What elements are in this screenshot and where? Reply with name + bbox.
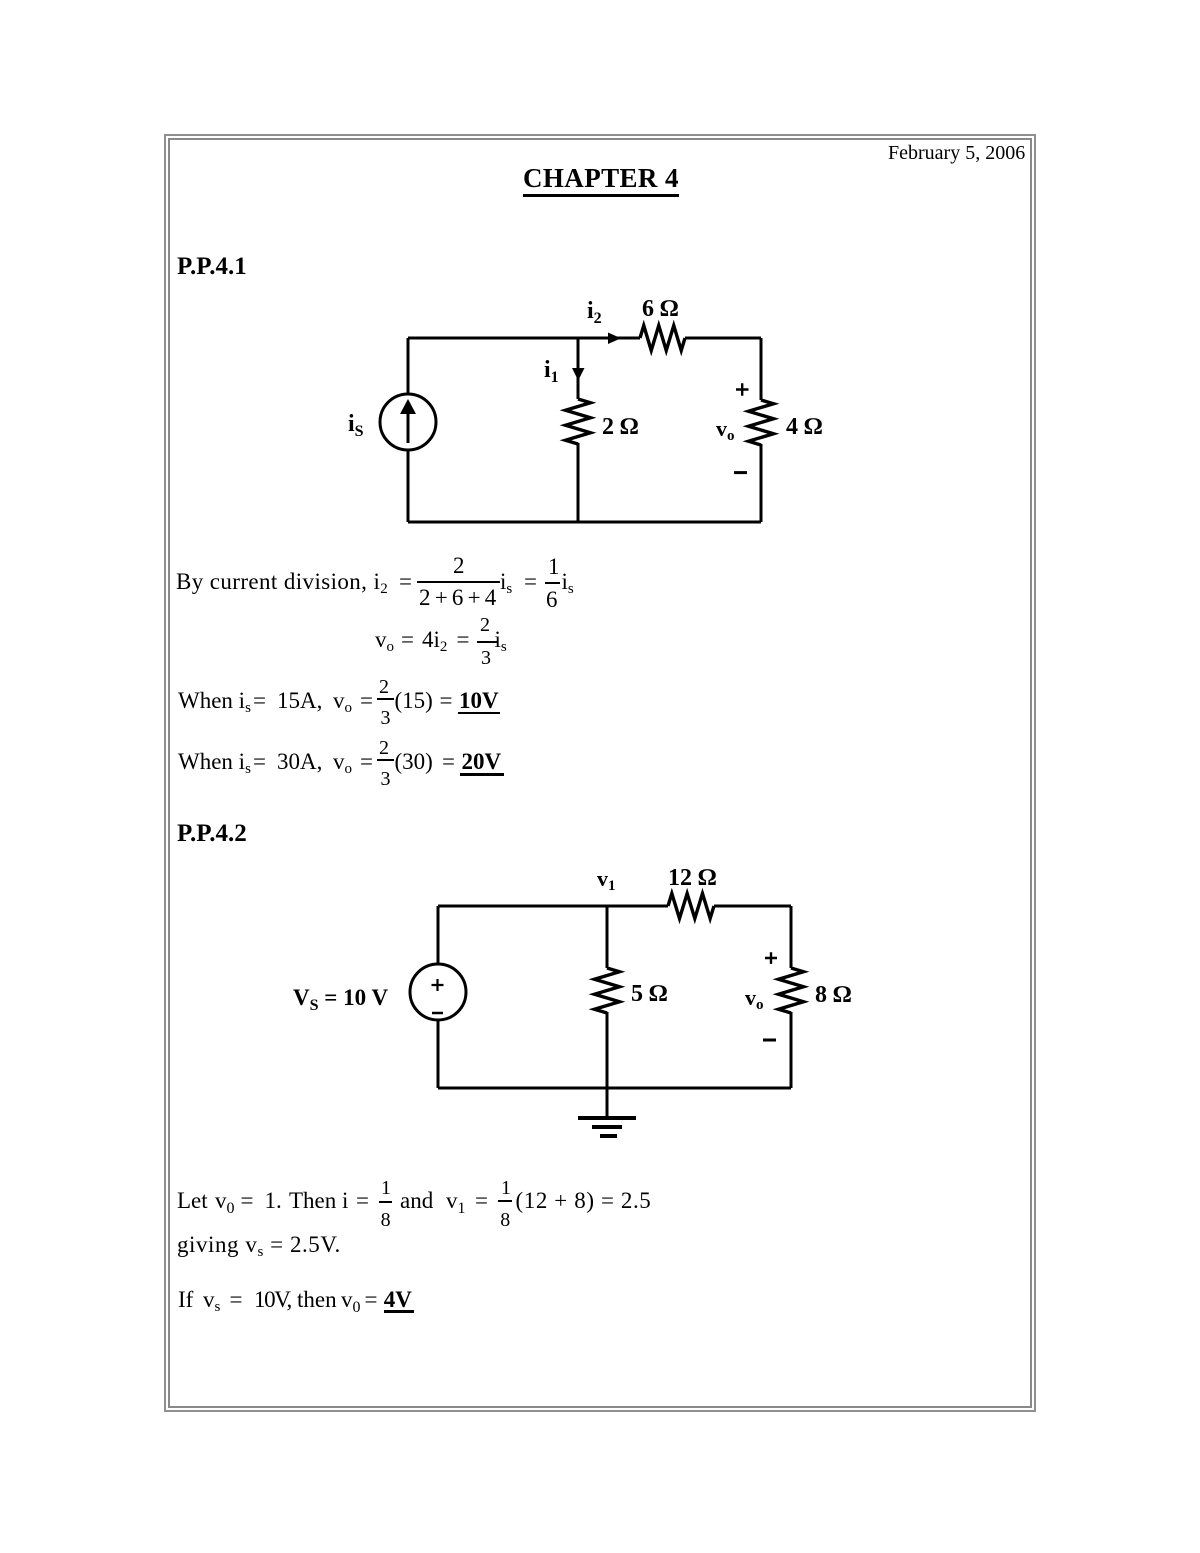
fraction 1 over 8 numerator [381, 1178, 391, 1198]
equation line 3: When is = 15A [178, 689, 251, 712]
wire right lower [790, 1012, 793, 1088]
fraction 2 over 2+6+4 numerator [453, 554, 465, 577]
wire middle upper [577, 338, 580, 399]
wire middle lower [577, 443, 580, 522]
minus sign vo1 [734, 471, 747, 474]
plus sign vo1 [736, 383, 749, 396]
page frame outer [164, 134, 1036, 1412]
ground bar 2 [592, 1125, 622, 1129]
fraction 1 over 8 numerator [501, 1178, 511, 1198]
source minus sign [432, 1012, 443, 1015]
wire top right segment [714, 905, 791, 908]
resistor R 2ohm [566, 399, 591, 444]
answer 4V underlined [384, 1288, 412, 1311]
wire top right segment [685, 337, 761, 340]
voltage source Vs circle [410, 964, 466, 1020]
wire middle upper [606, 906, 609, 968]
fraction bar [498, 1200, 511, 1202]
date [888, 143, 1025, 163]
fraction 2 over 3 numerator [379, 738, 389, 758]
wire left upper [437, 906, 440, 964]
answer 20V underlined [462, 750, 502, 773]
wire left lower [407, 450, 410, 522]
ground bar 1 [578, 1116, 636, 1120]
minus sign vo2 [763, 1039, 776, 1042]
fraction 2 over 3 numerator [379, 677, 389, 697]
ground bar 3 [600, 1134, 617, 1138]
resistor R 5ohm [595, 968, 620, 1013]
resistor R 4ohm [749, 400, 774, 445]
current source is circle [380, 394, 436, 450]
fraction 1 over 6 numerator [548, 555, 560, 578]
bottom line A: Let v0 = 1 [177, 1189, 208, 1212]
fraction bar [477, 641, 497, 643]
page frame inner [168, 138, 1032, 1408]
wire top left segment [438, 905, 668, 908]
svg-text:8 Ω: 8 Ω [815, 982, 851, 1008]
fraction bar [377, 759, 394, 761]
heading P.P.4.1 [177, 254, 247, 279]
resistor R 8ohm [779, 968, 804, 1013]
resistor R 6ohm [640, 326, 685, 351]
resistor R 12ohm [668, 894, 714, 919]
fraction bar [379, 1201, 393, 1203]
fraction bar [545, 582, 560, 584]
equation line 1: By current division [176, 570, 388, 593]
wire right lower [760, 444, 763, 522]
current source arrow head [400, 399, 416, 414]
heading P.P.4.2 [177, 821, 247, 846]
fraction denominator [481, 648, 491, 668]
answer 10V underlined [459, 689, 499, 712]
fraction bar [377, 698, 394, 700]
svg-text:5 Ω: 5 Ω [631, 981, 667, 1007]
fraction denominator [500, 1210, 510, 1230]
chapter title [523, 165, 679, 197]
fraction 2 over 3 numerator [480, 615, 490, 635]
bottom line C: If vs = 10V [178, 1288, 193, 1311]
wire bottom [408, 521, 761, 524]
wire top left segment [408, 337, 640, 340]
source plus sign [432, 979, 444, 991]
plus sign vo2 [765, 952, 777, 964]
wire left lower [437, 1020, 440, 1088]
equation line 4: When is = 30A [178, 750, 251, 773]
current source arrow stem [407, 413, 410, 443]
svg-text:VS = 10 V: VS = 10 V [293, 985, 388, 1014]
fraction denominator [381, 1210, 391, 1230]
wire right upper [760, 338, 763, 400]
fraction denominator [546, 588, 558, 611]
equation line 2: vo = 4 i2 [375, 628, 394, 651]
wire bottom [438, 1087, 791, 1090]
svg-text:vo: vo [745, 985, 764, 1013]
fraction denominator [419, 586, 500, 609]
wire middle lower to ground [606, 1012, 609, 1116]
svg-text:12 Ω: 12 Ω [668, 865, 716, 891]
svg-text:v1: v1 [597, 866, 616, 894]
arrow i1 [572, 368, 585, 381]
wire left upper [407, 338, 410, 394]
wire right upper [790, 906, 793, 968]
fraction bar [417, 581, 500, 583]
arrow i2 [608, 333, 621, 345]
bottom line B: giving vs [177, 1233, 341, 1256]
fraction denominator [381, 708, 391, 728]
fraction denominator [381, 769, 391, 789]
